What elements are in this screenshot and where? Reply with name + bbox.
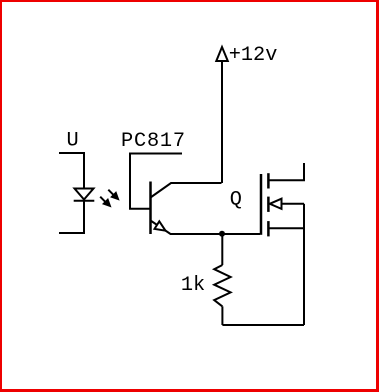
transistor Q1 collector lead — [151, 183, 222, 198]
wire source lead — [268, 227, 304, 229]
svg-text:+12v: +12v — [229, 44, 278, 67]
mosfet Q drain contact bar — [267, 173, 270, 188]
wire drain lead — [268, 163, 304, 180]
wire +12v rail — [221, 61, 223, 183]
svg-text:1k: 1k — [181, 274, 205, 297]
mosfet Q body contact bar — [267, 197, 270, 212]
light arrow 2 — [100, 197, 111, 207]
node junction dot — [219, 231, 225, 237]
power +12v arrow — [216, 47, 228, 61]
mosfet Q gate bar — [260, 174, 263, 235]
transistor Q1 emitter arrow — [155, 221, 166, 230]
light arrow 1 — [108, 190, 119, 200]
LED cathode bar — [74, 200, 95, 202]
wire U top lead — [59, 153, 84, 188]
wire source down right side — [303, 204, 305, 325]
svg-text:U: U — [67, 130, 79, 153]
resistor R1 bottom lead — [221, 306, 223, 325]
resistor R1 top lead — [221, 234, 223, 265]
wire bottom return — [222, 324, 304, 326]
resistor R1 zigzag — [214, 265, 230, 306]
wire body lead — [282, 203, 305, 205]
svg-text:PC817: PC817 — [121, 130, 186, 153]
mosfet Q source contact bar — [267, 221, 270, 236]
wire PC817 base bracket — [130, 154, 182, 209]
LED D1 (optocoupler emitter diode) — [75, 189, 94, 200]
wire U bottom lead — [59, 201, 84, 233]
transistor Q1 emitter lead — [151, 221, 261, 235]
transistor Q1 base bar — [149, 182, 152, 235]
mosfet Q body arrow — [270, 199, 282, 209]
svg-text:Q: Q — [230, 189, 242, 212]
